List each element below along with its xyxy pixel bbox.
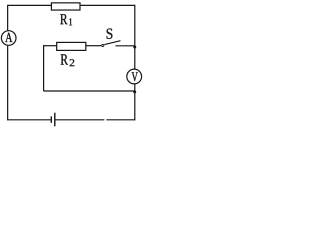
switch S fixed contact wire: [116, 45, 135, 47]
wire top-right segment: [80, 4, 135, 6]
battery B1 long plate: [54, 113, 56, 127]
wire top-left segment: [8, 4, 52, 6]
wire bottom-right segment: [106, 119, 134, 121]
resistor R1 box: [51, 3, 80, 10]
resistor label R1 letter R: [60, 14, 67, 24]
resistor label R2 subscript 2: [70, 59, 75, 66]
node junction below voltmeter: [133, 90, 136, 93]
wire bottom-left segment: [8, 119, 51, 121]
node junction at switch contact: [133, 46, 136, 49]
wire R2 to switch: [86, 45, 102, 47]
wire inner-left vertical: [43, 45, 45, 91]
wire left upper: [7, 5, 9, 31]
wire R2 branch left lead: [44, 45, 57, 47]
ammeter label A: [5, 33, 12, 42]
wire inner-bottom horizontal: [44, 90, 135, 92]
resistor label R1 subscript 1: [69, 18, 72, 25]
wire right lower: [134, 84, 136, 120]
resistor label R2 letter R: [61, 54, 68, 64]
ammeter A1 circle: [1, 31, 16, 46]
switch label S: [107, 29, 113, 39]
wire left lower: [7, 46, 9, 121]
switch S lever: [104, 41, 120, 45]
battery B1 short plate: [50, 116, 52, 123]
wire bottom-mid segment: [56, 119, 105, 121]
wire right upper: [134, 5, 136, 69]
resistor R2 box: [57, 42, 86, 50]
voltmeter label V: [132, 72, 138, 81]
voltmeter V1 circle: [127, 69, 142, 84]
switch S pivot ring: [101, 44, 104, 47]
